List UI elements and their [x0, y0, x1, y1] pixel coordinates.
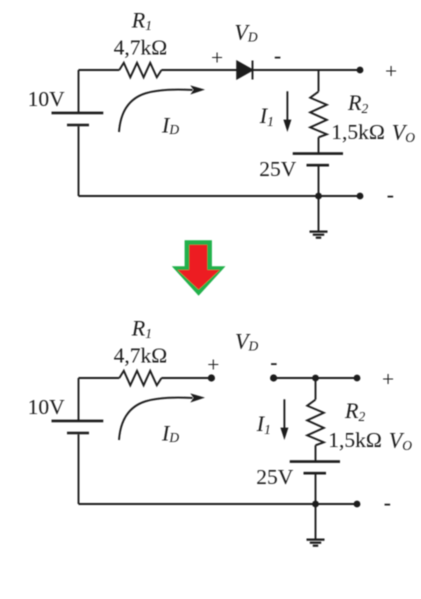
svg-text:-: - [274, 44, 281, 68]
svg-text:+: + [207, 353, 219, 377]
svg-text:-: - [270, 350, 277, 374]
svg-text:+: + [211, 46, 223, 70]
